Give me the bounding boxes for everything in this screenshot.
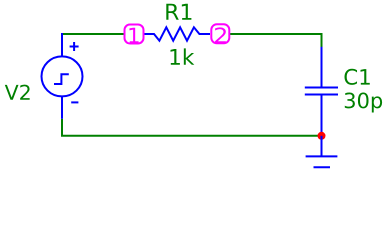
junction dot [318, 132, 326, 140]
ground [306, 136, 338, 168]
node bubble 1 [125, 25, 144, 44]
node bubble 2 [211, 24, 229, 43]
capacitor C1 [305, 47, 338, 136]
resistor R1 [144, 27, 210, 40]
wire top-left [62, 33, 126, 35]
wire bottom horizontal [61, 135, 322, 137]
label R1 [166, 4, 191, 20]
voltage source V2 [42, 33, 83, 119]
label 30p [345, 93, 382, 113]
label C1 [344, 69, 369, 85]
label V2 [5, 85, 30, 100]
label 1k [171, 48, 195, 64]
wire top-right with corner [229, 34, 322, 48]
wire bottom-left vertical [61, 119, 63, 136]
